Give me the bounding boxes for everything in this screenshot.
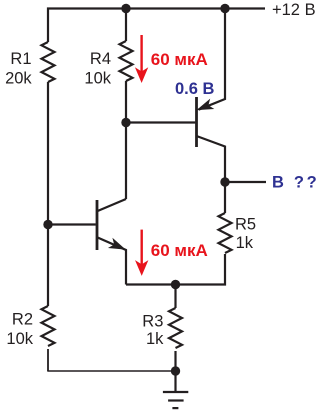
wire Q2 emitter from +12V <box>199 9 226 110</box>
svg-text:R1: R1 <box>10 50 31 68</box>
wire R3 bottom to ground <box>174 351 176 392</box>
current arrow I1 60uA (red) <box>136 35 147 82</box>
svg-text:60 мкА: 60 мкА <box>151 241 208 260</box>
svg-text:0.6 В: 0.6 В <box>175 80 215 98</box>
junction dot top rail at Q2 emitter <box>220 4 229 13</box>
transistor Q1 base bar <box>96 200 99 250</box>
junction dot node A (R4 / Q2 base / Q1 collector) <box>121 118 130 127</box>
wire R1 bottom to R2 top <box>47 82 49 306</box>
wire Q2 collector <box>197 136 226 182</box>
wire output stub <box>225 181 266 183</box>
wire Q1 emitter <box>98 238 126 285</box>
transistor Q1 emitter arrowhead (NPN) <box>110 239 125 249</box>
resistor R5 <box>219 213 232 253</box>
svg-text:+12 В: +12 В <box>272 1 316 19</box>
svg-text:В ??: В ?? <box>272 174 319 192</box>
junction dot ground node <box>171 366 180 375</box>
resistor R2 <box>42 306 55 346</box>
svg-text:R2: R2 <box>12 310 33 328</box>
wire R5 top <box>224 182 226 213</box>
wire R3 top <box>174 285 176 309</box>
wire Q1 collector <box>98 199 126 211</box>
wire top rail (+12V) <box>48 9 265 43</box>
wire bottom left to ground node <box>47 370 175 372</box>
svg-text:1k: 1k <box>236 234 254 252</box>
resistor R1 <box>42 42 55 82</box>
resistor R3 <box>169 308 182 348</box>
svg-text:R3: R3 <box>142 313 163 331</box>
transistor Q2 base bar <box>195 97 198 147</box>
svg-text:10k: 10k <box>6 330 33 348</box>
svg-text:20k: 20k <box>5 69 32 87</box>
junction dot top rail at R4 <box>121 4 130 13</box>
svg-text:1k: 1k <box>146 330 164 348</box>
transistor Q2 emitter arrowhead (PNP) <box>198 100 213 110</box>
junction dot bottom rail at R3 <box>171 280 180 289</box>
svg-text:10k: 10k <box>84 69 111 87</box>
svg-text:R4: R4 <box>90 50 111 68</box>
wire R2 bottom <box>47 349 49 371</box>
resistor R4 <box>120 41 133 81</box>
wire R4 top feed <box>125 9 127 42</box>
wire Q2 base <box>126 121 195 123</box>
current arrow I2 60uA (red) <box>136 230 147 275</box>
junction dot output node <box>220 177 229 186</box>
wire R5 bottom and bottom rail <box>126 254 225 285</box>
svg-text:60 мкА: 60 мкА <box>151 50 208 69</box>
svg-text:R5: R5 <box>235 216 256 234</box>
junction dot R1/R2 divider to Q1 base <box>43 220 52 229</box>
wire Q1 base <box>48 223 96 225</box>
wire R4 bottom through node A down to Q1 collector <box>125 81 127 199</box>
ground symbol <box>163 392 188 408</box>
